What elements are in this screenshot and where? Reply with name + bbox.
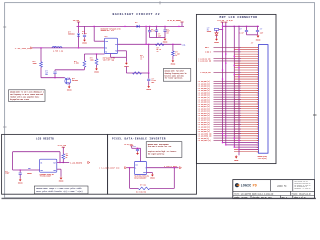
ground under C9 <box>18 178 23 184</box>
wire 1 S_LCD_D07 (3) <box>214 96 242 98</box>
svg-text:1 S_LCD_DE (3): 1 S_LCD_DE (3) <box>198 138 210 140</box>
svg-text:0.1uF: 0.1uF <box>152 80 157 82</box>
wire 1 S_LCD_D12 (3) <box>214 108 242 110</box>
design note box 3 (reset pulse) <box>34 186 88 194</box>
wire bus step 4 <box>239 148 258 150</box>
junction rail/fb <box>178 26 179 27</box>
wire power tap drop <box>78 22 80 26</box>
connector pin 40 stub <box>234 135 258 137</box>
power tap reset +3.3V <box>62 147 65 149</box>
junction loop tap <box>59 162 60 163</box>
wire decoupling rail <box>223 25 260 27</box>
svg-text:C??: C?? <box>166 29 169 31</box>
svg-text:1 S_LCD_D18 (3): 1 S_LCD_D18 (3) <box>198 122 210 124</box>
wire bus cathode vertical <box>238 26 240 155</box>
svg-text:WDI: WDI <box>28 168 31 170</box>
svg-text:1 S_LCD_CLK (3): 1 S_LCD_CLK (3) <box>198 58 210 60</box>
wire 1 S_LCD_D05 (3) <box>214 92 242 94</box>
svg-text:U??: U?? <box>105 36 108 38</box>
svg-text:1 S_LCD_VSYNC (3): 1 S_LCD_VSYNC (3) <box>198 133 212 135</box>
connector pin 39 stub <box>234 133 258 135</box>
connector pin 38 stub <box>234 130 258 132</box>
svg-text:MR: MR <box>40 162 42 164</box>
frame tick left lower <box>3 126 7 128</box>
svg-text:dimming frequency must be: dimming frequency must be <box>165 73 187 75</box>
junction rail/VIN <box>94 26 95 27</box>
svg-text:C??: C?? <box>158 34 161 36</box>
capacitor C5 10uF <box>155 30 158 31</box>
svg-text:5% 1/10W SMD: 5% 1/10W SMD <box>136 191 146 193</box>
wire 1 S_LCD_D02 (3) <box>214 85 242 87</box>
connector pin 17 stub <box>234 83 258 85</box>
svg-text:Number: 1013157: Number: 1013157 <box>234 197 247 199</box>
svg-text:1 S_LCD_D05 (3): 1 S_LCD_D05 (3) <box>198 92 210 94</box>
value label C4b 4.7uF <box>151 29 155 33</box>
ground under R3 <box>94 67 99 73</box>
connector pin 18 stub <box>234 85 258 87</box>
wire bus step 1 <box>223 142 259 144</box>
wire R5 lower <box>172 56 174 60</box>
wire gate divider upper <box>40 48 42 62</box>
wire SW output <box>118 43 182 45</box>
connector pin 1 stub <box>234 46 258 48</box>
svg-text:PD: PD <box>253 185 257 189</box>
title block col divider title/project <box>289 191 291 195</box>
wire loop left <box>12 152 14 170</box>
ground under C1 <box>82 39 87 45</box>
junction at R divider tap <box>40 47 41 48</box>
wire vcc run <box>132 147 141 149</box>
connector pin 6 stub <box>234 58 258 60</box>
connector pin 2 stub <box>234 49 258 51</box>
wire SW drop to C4 <box>148 44 150 73</box>
svg-text:1 S_LCD_D11 (3): 1 S_LCD_D11 (3) <box>198 106 210 108</box>
junction bus step 1 <box>222 142 223 143</box>
ground under U2 <box>59 177 64 183</box>
capacitor C4b 4.7uF <box>148 31 151 32</box>
svg-text:VOUT OFF typ: VOUT OFF typ <box>103 60 114 62</box>
svg-text:from SOM is active low. LCD: from SOM is active low. LCD <box>148 146 172 148</box>
connector pin 4 stub <box>234 53 258 55</box>
resistor R8 10K <box>138 187 150 190</box>
svg-text:Reset pulse width formula: T(S: Reset pulse width formula: T(S) = 2900 *… <box>36 190 82 193</box>
value label C2 1uF <box>45 70 49 76</box>
wire R7 upper <box>62 147 64 154</box>
capacitor C4 0.1uF <box>147 79 150 80</box>
wire feedback run <box>126 72 148 74</box>
svg-text:1 S_LCD_D03 (3): 1 S_LCD_D03 (3) <box>198 88 210 90</box>
svg-text:DESIGN NOTE: PWM INPUT: DESIGN NOTE: PWM INPUT <box>165 71 184 73</box>
wire cap lower <box>19 175 21 179</box>
svg-text:R??: R?? <box>157 47 160 49</box>
wire 1 S_LCD_CLK# (3) <box>214 60 242 62</box>
svg-text:FB: FB <box>115 51 117 53</box>
svg-text:LCD RESETB: LCD RESETB <box>36 137 54 140</box>
inductor L1 <box>52 47 62 48</box>
svg-text:1 S_LCD_D01 (3): 1 S_LCD_D01 (3) <box>198 83 210 85</box>
connector pin 34 stub <box>234 121 258 123</box>
junction bus tie pin 4 <box>225 53 226 54</box>
connector pin 27 stub <box>234 105 258 107</box>
svg-text:C??: C?? <box>5 171 8 173</box>
connector pin 28 stub <box>234 108 258 110</box>
wire 1 S_LCD_D22 (3) <box>214 130 242 132</box>
section box PIXEL DATA-ENABLE INVERTER <box>108 134 197 194</box>
junction WDI/cap <box>20 169 21 170</box>
design note box 4 (inverter) <box>146 142 182 158</box>
connector pin 36 stub <box>234 126 258 128</box>
capacitor C8 10uF <box>256 30 259 31</box>
wire VOUT drop <box>145 26 147 44</box>
svg-text:+5V_VIN: +5V_VIN <box>73 20 79 22</box>
connector pin 7 stub <box>234 60 258 62</box>
wire C5 stub <box>156 26 158 29</box>
resistor R2 2.00K <box>83 61 86 67</box>
wire GND 1 <box>214 46 242 48</box>
svg-text:C??: C?? <box>240 28 243 30</box>
connector pin 16 stub <box>234 80 258 82</box>
wire C1 bottom <box>84 37 86 38</box>
port arrow inverter in <box>125 167 127 169</box>
wire GND run <box>111 56 127 58</box>
connector pin 22 stub <box>234 94 258 96</box>
junction C4 tap <box>148 72 149 73</box>
capacitor C6 10uF <box>163 30 166 31</box>
junction pullup/output <box>63 162 64 163</box>
wire cap stub inv <box>137 147 139 150</box>
title block row divider 2 <box>233 195 315 197</box>
connector pin 15 stub <box>234 78 258 80</box>
svg-text:V_BL: V_BL <box>182 44 186 46</box>
wire C1 stub <box>84 26 86 34</box>
svg-text:Thursday, May 05, 2011: Thursday, May 05, 2011 <box>252 197 271 199</box>
junction rail 3 <box>234 26 235 27</box>
svg-text:HIROSE DF9B: HIROSE DF9B <box>258 156 267 158</box>
connector pin 46 stub <box>234 148 258 150</box>
svg-text:S_LCD_RESETB: S_LCD_RESETB <box>70 162 83 164</box>
svg-text:de-populate R99 & R102: de-populate R99 & R102 <box>10 99 29 101</box>
port arrow inverter out <box>180 167 182 169</box>
svg-text:0.1uF: 0.1uF <box>82 33 87 35</box>
svg-text:1 S_LCD_D02 (3): 1 S_LCD_D02 (3) <box>198 86 210 88</box>
svg-text:MRT LCD CONNECTOR: MRT LCD CONNECTOR <box>220 16 258 19</box>
svg-text:C??: C?? <box>134 146 137 148</box>
connector pin 45 stub <box>234 146 258 148</box>
connector J1 body <box>258 45 268 154</box>
wire reset output <box>57 162 69 164</box>
svg-text:10uF: 10uF <box>166 31 169 33</box>
wire WDI net <box>13 169 40 171</box>
title block fine print <box>294 180 311 190</box>
transistor Q1 2N7002 <box>65 78 71 86</box>
resistor R1 100K <box>40 62 43 67</box>
junction rail cap2 <box>156 26 157 27</box>
svg-text:GROUND: GROUND <box>150 178 155 180</box>
junction rail VOUT <box>145 26 146 27</box>
svg-text:EN: EN <box>105 48 107 50</box>
junction rail 4 <box>238 26 239 27</box>
wire 1 S_LCD_D00 (3) <box>214 80 242 82</box>
svg-text:PG: PG <box>105 52 107 54</box>
wire C4b bottom <box>149 32 151 38</box>
wire C4 bottom <box>148 81 150 85</box>
svg-text:GROUND: GROUND <box>59 181 64 183</box>
svg-text:GROUND: GROUND <box>18 182 23 184</box>
svg-text:1 S_LCD_D08 (3): 1 S_LCD_D08 (3) <box>198 99 210 101</box>
svg-text:1 S_LCD_D15 (3): 1 S_LCD_D15 (3) <box>198 115 210 117</box>
power tap +3.3V_LCD <box>221 22 224 24</box>
wire 1 S_LCD_PCLK (3) <box>214 139 242 141</box>
svg-text:1 S_LCD_D19 (3): 1 S_LCD_D19 (3) <box>198 124 210 126</box>
svg-text:51.1K: 51.1K <box>157 49 162 51</box>
svg-text:0.1uF: 0.1uF <box>240 32 244 34</box>
svg-text:1 S_LCD_PCLK (3): 1 S_LCD_PCLK (3) <box>198 140 211 142</box>
connector pin 47 stub <box>234 151 258 153</box>
wire diode cathode <box>78 36 80 48</box>
svg-text:GROUND: GROUND <box>82 43 87 45</box>
wire GND pin drop <box>110 54 112 58</box>
svg-text:10uF: 10uF <box>158 35 161 37</box>
junction VOUT/SW <box>145 44 146 45</box>
wire 1 S_LCD_VSYNC (3) <box>214 133 242 135</box>
junction rail cap3 <box>164 26 165 27</box>
connector pin 5 stub <box>234 55 258 57</box>
part label TPS3825 <box>40 173 54 178</box>
value label R8 10K <box>140 184 146 186</box>
svg-text:VCC: VCC <box>135 164 138 166</box>
resistor R4 51.1K <box>156 43 164 46</box>
op-amp U2 TPS3825 supervisor <box>40 159 57 172</box>
wire PWM/EN net <box>33 47 105 49</box>
wire [ GND ] <box>214 51 242 53</box>
svg-text:GROUND: GROUND <box>146 89 151 91</box>
wire FB/GND join <box>125 51 127 62</box>
junction bus tie pin 10 <box>238 67 239 68</box>
ground under U1 <box>124 62 129 68</box>
junction vcc cap <box>137 148 138 149</box>
power tap +4.8V_BL <box>224 22 227 24</box>
wire 1 S_LCD_D10 (3) <box>214 103 242 105</box>
junction bus tie pin 15 <box>222 78 223 79</box>
svg-text:GROUND: GROUND <box>67 89 72 91</box>
wire gnd drop 2 <box>60 169 62 176</box>
svg-text:1 S_LCD_HSYNC (3): 1 S_LCD_HSYNC (3) <box>198 136 212 138</box>
wire C4 stub <box>148 73 150 79</box>
junction 1 S_LCD_HSYNC (3) <box>225 135 226 136</box>
svg-text:1 S_LCD_D00 (3): 1 S_LCD_D00 (3) <box>198 81 210 83</box>
wire diode anode <box>78 26 80 33</box>
svg-text:LOGIC PD: LOGIC PD <box>277 184 287 187</box>
connector pin 20 stub <box>234 89 258 91</box>
svg-text:R?? 10K: R?? 10K <box>140 184 146 186</box>
svg-text:R??: R?? <box>66 153 69 155</box>
svg-text:GND 1: GND 1 <box>205 47 209 49</box>
frame tick right <box>313 114 317 116</box>
connector pin 9 stub <box>234 64 258 66</box>
junction bus tie pin 2 <box>238 49 239 50</box>
frame bottom shadow <box>2 197 317 199</box>
svg-text:1 S_LCD_D16 (3): 1 S_LCD_D16 (3) <box>198 117 210 119</box>
svg-text:R??: R?? <box>175 52 178 54</box>
value label R4 51.1K <box>157 47 162 53</box>
wire 1 S_LCD_D17 (3) <box>214 119 242 121</box>
wire inverter input <box>127 167 135 169</box>
connector pin 10 stub <box>234 67 258 69</box>
svg-text:requires active high. U?? inve: requires active high. U?? inverts <box>148 151 177 153</box>
designator D1 MBR0520 <box>68 32 75 36</box>
ground under C4 <box>146 85 151 91</box>
wire bus +3.3V_LCD vertical <box>222 22 224 143</box>
wire bus GND vertical <box>233 26 235 147</box>
wire cap stub top <box>54 70 56 71</box>
junction rail 1 <box>222 26 223 27</box>
wire loop left inverter <box>129 168 131 189</box>
ground under U3 <box>150 174 155 180</box>
wire loop right <box>59 152 61 163</box>
svg-text:D??: D?? <box>135 22 138 24</box>
connector pin 30 stub <box>234 112 258 114</box>
value label 4.7uH <box>53 50 64 53</box>
title block row divider 1 <box>233 190 315 192</box>
designator L2 ferrite bead <box>207 28 210 32</box>
svg-text:10K: 10K <box>66 155 69 157</box>
svg-text:MBR0520: MBR0520 <box>68 34 75 36</box>
svg-text:J??: J?? <box>251 43 254 45</box>
wire EN to IC <box>84 53 104 55</box>
wire C4b stub <box>149 26 151 30</box>
wire 1 4.8V_BL_CAT <box>214 71 242 73</box>
wire loop top <box>13 151 60 153</box>
svg-text:1 S_LCD_D12 (3): 1 S_LCD_D12 (3) <box>198 108 210 110</box>
connector pin 35 stub <box>234 123 258 125</box>
Logic PD logo text <box>241 185 257 189</box>
junction EN divider <box>96 53 97 54</box>
connector pin 23 stub <box>234 96 258 98</box>
junction bus tie pin 13 <box>234 74 235 75</box>
svg-text:16V: 16V <box>166 32 169 34</box>
designator Q1 2N7002 <box>72 78 78 82</box>
wire RC node <box>55 69 84 71</box>
svg-text:C??: C?? <box>152 78 155 80</box>
capacitor C9 680pF <box>19 173 22 174</box>
svg-text:50V: 50V <box>152 82 155 84</box>
svg-text:Sheet 2 of 10: Sheet 2 of 10 <box>294 197 306 199</box>
svg-text:1 S_LCD_D21 (3): 1 S_LCD_D21 (3) <box>198 129 210 131</box>
wire bus step 3 <box>234 146 258 148</box>
svg-text:1 S_LCD_D07 (3): 1 S_LCD_D07 (3) <box>198 97 210 99</box>
value label C1 0.1uF <box>82 31 87 35</box>
wire C6 bottom <box>164 31 166 37</box>
value label C5 10uF <box>158 34 161 38</box>
connector pin 21 stub <box>234 92 258 94</box>
connector pin 14 stub <box>234 76 258 78</box>
connector pin 44 stub <box>234 144 258 146</box>
ground under C5 C6 <box>163 38 168 44</box>
svg-text:GROUND: GROUND <box>94 71 99 73</box>
wire inverter output <box>147 167 179 169</box>
svg-text:10uF: 10uF <box>260 32 263 34</box>
svg-text:1 S_LCD_D20 (3): 1 S_LCD_D20 (3) <box>198 127 210 129</box>
port arrow reset out <box>88 161 90 163</box>
connector pin 8 stub <box>234 62 258 64</box>
power tap inverter +3.3V <box>130 146 133 148</box>
junction loop in <box>129 167 130 168</box>
connector pin 37 stub <box>234 128 258 130</box>
wire loop bottom left <box>130 187 139 189</box>
junction gate/cap <box>54 77 55 78</box>
svg-text:2N7002: 2N7002 <box>72 80 78 82</box>
wire loop bottom right <box>150 187 175 189</box>
connector pin 41 stub <box>234 137 258 139</box>
svg-text:GROUND: GROUND <box>163 42 168 44</box>
wire VIN drop <box>93 26 95 41</box>
svg-text:THE PROPERTY OF LOGIC PD.: THE PROPERTY OF LOGIC PD. <box>294 184 311 186</box>
capacitor C2 1uF <box>53 72 56 73</box>
svg-text:GROUND: GROUND <box>234 160 238 162</box>
resistor R5 1.00M <box>172 51 175 56</box>
title block col divider cell2 <box>292 180 294 192</box>
power tap +4.8V_BL_ANODE <box>180 21 183 23</box>
junction bus tie pin 5 <box>234 56 235 57</box>
junction C7 <box>246 26 247 27</box>
svg-text:TPS3825-33DBVT: TPS3825-33DBVT <box>40 176 52 178</box>
resistor R3 100K <box>95 59 98 65</box>
vendor note text <box>101 27 121 32</box>
wire 1 S_LCD_D20 (3) <box>214 126 242 128</box>
Logic PD logo icon <box>235 183 240 187</box>
connector pin 33 stub <box>234 119 258 121</box>
title block col divider number/date <box>250 196 252 199</box>
value label C9 680pF <box>5 171 9 175</box>
wire 1 S_LCD_D21 (3) <box>214 128 242 130</box>
value label R5 1.00M <box>175 52 180 58</box>
svg-text:+3.3V_LCD: +3.3V_LCD <box>217 20 224 22</box>
wire C7 stub <box>246 26 248 30</box>
capacitor C7 0.1uF <box>245 30 248 31</box>
svg-text:SW: SW <box>115 44 117 46</box>
wire VIN to IC <box>94 40 104 42</box>
junction bus tie pin 9 <box>234 65 235 66</box>
wire rail to tap <box>181 22 183 26</box>
wire 1 S_LCD_D18 (3) <box>214 121 242 123</box>
wire R2 lower <box>83 67 85 70</box>
value label R1 100K <box>33 61 38 65</box>
port arrow PWM input <box>31 47 33 49</box>
junction bus tie pin 14 <box>238 76 239 77</box>
wire caps join 2 <box>247 34 258 36</box>
junction bus tie pin 11 <box>222 69 223 70</box>
designator J1 <box>251 43 254 45</box>
wire 1 S_LCD_D14 (3) <box>214 112 242 114</box>
junction SW/C4 <box>148 44 149 45</box>
ground bus drop <box>234 155 238 161</box>
connector pin 19 stub <box>234 87 258 89</box>
value label R7 10K <box>66 153 69 158</box>
wire vcc drop <box>131 146 133 149</box>
value label C6 10uF <box>166 29 169 34</box>
wire 1 S_LCD_D09 (3) <box>214 101 242 103</box>
svg-text:1 S_LCD_D17 (3): 1 S_LCD_D17 (3) <box>198 120 210 122</box>
junction 1 S_LCD_VSYNC (3) <box>222 133 223 134</box>
svg-text:+4.8V_BL_ANODE: +4.8V_BL_ANODE <box>167 19 181 22</box>
svg-text:FB: FB <box>207 29 209 31</box>
svg-text:680pF: 680pF <box>5 173 9 175</box>
junction loop out <box>174 167 175 168</box>
connector pin 12 stub <box>234 71 258 73</box>
junction rail seg <box>124 26 125 27</box>
svg-text:1 S_LCD_D06 (3): 1 S_LCD_D06 (3) <box>198 95 210 97</box>
design note box 2 <box>163 69 191 82</box>
